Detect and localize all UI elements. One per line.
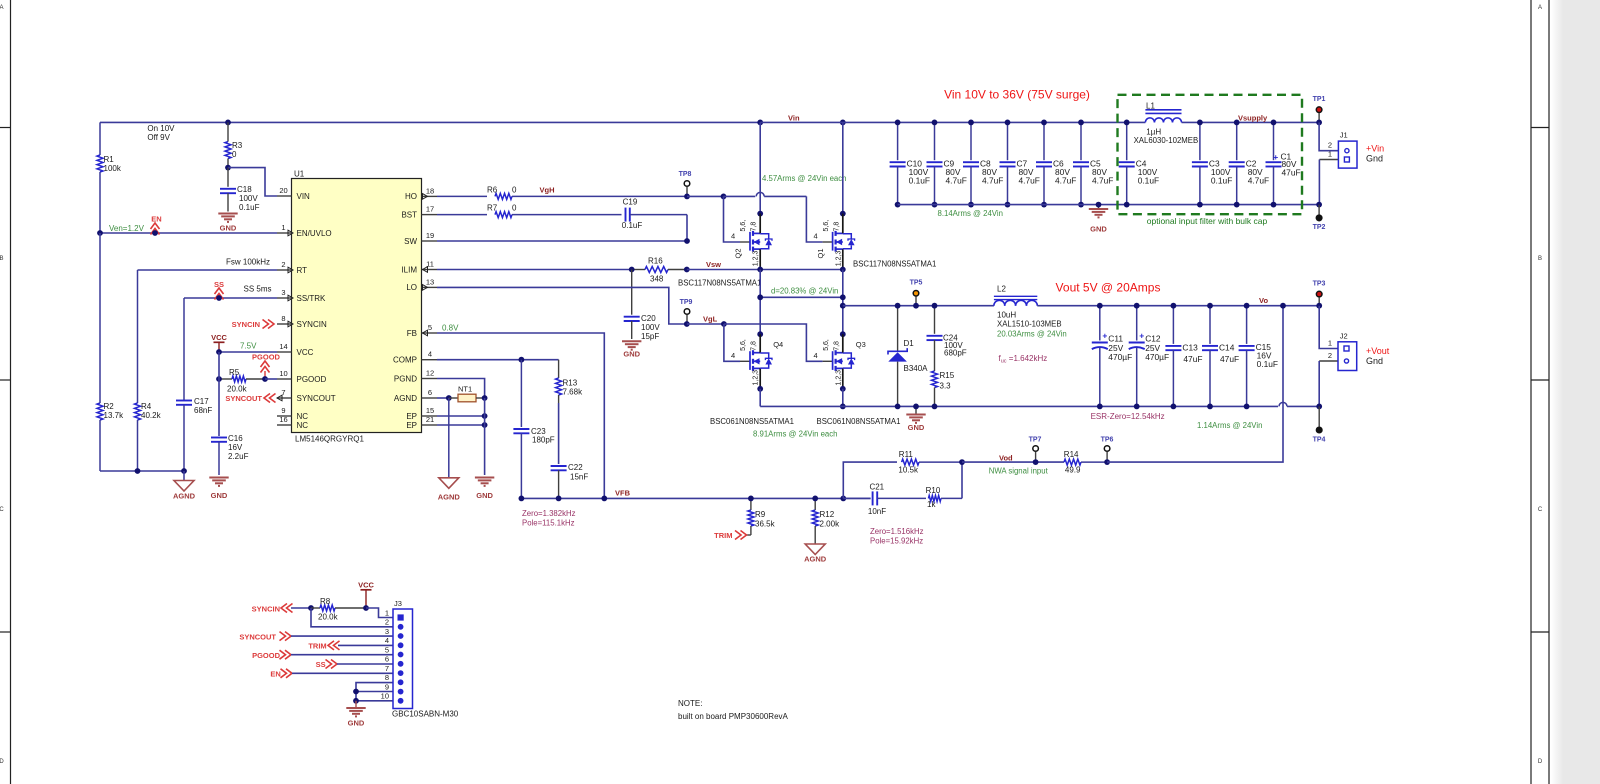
svg-text:10: 10 (381, 692, 389, 701)
svg-text:R10: R10 (926, 486, 941, 495)
junction R9 top (748, 496, 754, 502)
svg-text:1,2,3: 1,2,3 (753, 251, 760, 267)
wire R3 to VIN pin (228, 168, 277, 196)
junction C14 top (1207, 303, 1213, 309)
junction R12 top (812, 496, 818, 502)
junction TP8 (684, 194, 690, 200)
svg-text:1: 1 (281, 223, 285, 232)
svg-text:0: 0 (232, 150, 237, 159)
svg-text:Zero=1.382kHz: Zero=1.382kHz (522, 509, 576, 518)
svg-text:SYNCOUT: SYNCOUT (239, 632, 276, 641)
junction C11 bottom (1097, 404, 1103, 410)
wire Q1 drain feed (842, 122, 844, 213)
svg-text:C20: C20 (641, 314, 656, 323)
wire VCC to pin14 (219, 351, 277, 353)
junction SW to L2 takeoff (840, 303, 846, 309)
junction SS port (216, 295, 222, 301)
connector J3 GBC10SABN-M30 (381, 599, 459, 719)
port PGOOD (252, 353, 281, 380)
junction D1 bottom (895, 404, 901, 410)
svg-text:EP: EP (406, 412, 417, 421)
text 7.5V (240, 342, 257, 351)
capacitor C16 (211, 434, 249, 475)
svg-text:18: 18 (426, 186, 434, 195)
text 8.14Arms @ 24Vin (938, 209, 1003, 218)
capacitor C20 (624, 270, 661, 342)
resistor R2 (97, 233, 124, 471)
wire Vsw to Q2 source (687, 269, 760, 271)
svg-text:2.2uF: 2.2uF (228, 452, 249, 461)
svg-text:1k: 1k (927, 500, 936, 509)
junction C23 bottom (519, 496, 525, 502)
junction C10 bottom (895, 202, 901, 208)
wire AGND pin net (437, 397, 449, 399)
junction VCC pin14 (216, 349, 222, 355)
svg-text:GBC10SABN-M30: GBC10SABN-M30 (392, 710, 459, 719)
svg-text:0: 0 (512, 186, 517, 195)
svg-text:8: 8 (281, 314, 285, 323)
svg-text:2: 2 (281, 260, 285, 269)
svg-text:180pF: 180pF (532, 436, 555, 445)
svg-text:0.8V: 0.8V (442, 324, 459, 333)
capacitor C3 (1192, 122, 1232, 204)
junction R4 bottom (135, 468, 141, 474)
text BSC117N08NS5ATMA1 for Q2 (678, 279, 761, 288)
wire SS/TRK net (184, 297, 277, 299)
svg-text:R11: R11 (899, 450, 914, 459)
wire Q3 source to gnd rail (842, 389, 844, 407)
svg-text:2: 2 (1328, 141, 1332, 150)
svg-text:AGND: AGND (173, 492, 196, 501)
junction R3/C18/VIN (225, 165, 231, 171)
svg-text:10uH: 10uH (997, 311, 1016, 320)
junction TP2 (1316, 202, 1322, 208)
junction R3 top (225, 120, 231, 126)
wire Vout rail (1037, 305, 1319, 307)
svg-text:ILIM: ILIM (401, 265, 417, 274)
svg-text:R7: R7 (487, 204, 498, 213)
svg-text:680pF: 680pF (944, 349, 967, 358)
svg-text:+: + (1102, 331, 1107, 341)
wire J3 pin8 (356, 683, 393, 701)
svg-text:A: A (0, 5, 4, 11)
svg-text:Q1: Q1 (816, 248, 825, 258)
svg-text:AGND: AGND (394, 394, 417, 403)
text 8.91Arms @ 24Vin each (753, 430, 838, 439)
resistor R5 (219, 368, 265, 394)
junction TP5 (913, 303, 919, 309)
svg-text:13: 13 (426, 277, 434, 286)
svg-text:1: 1 (385, 608, 389, 617)
svg-text:Vin 10V to 36V (75V surge): Vin 10V to 36V (75V surge) (944, 88, 1090, 102)
svg-text:4.7uF: 4.7uF (1092, 176, 1113, 186)
svg-text:0.1uF: 0.1uF (1257, 359, 1278, 369)
port SYNCOUT at U1 (225, 394, 275, 403)
svg-text:20.0k: 20.0k (227, 385, 248, 394)
junction input gnd stub (1096, 202, 1102, 208)
svg-text:19: 19 (426, 231, 434, 240)
port EN at J3 (270, 669, 292, 679)
wire VgH down to Q1 gate (806, 196, 822, 242)
svg-text:J1: J1 (1340, 131, 1348, 140)
capacitor C5 (1073, 122, 1113, 204)
svg-text:4: 4 (731, 351, 735, 360)
svg-text:TP5: TP5 (910, 280, 923, 287)
diode D1 B340A (888, 306, 928, 407)
junction C17/AGND (181, 468, 187, 474)
svg-text:SS 5ms: SS 5ms (244, 285, 272, 294)
junction R8 left (308, 605, 314, 611)
svg-text:10nF: 10nF (868, 507, 886, 516)
capacitor C1 (1266, 122, 1301, 204)
junction Vsw node (684, 267, 690, 273)
junction C13 bottom (1171, 404, 1177, 410)
junction R8 right VCC (363, 605, 369, 611)
svg-text:SYNCIN: SYNCIN (297, 320, 327, 329)
svg-text:1,2,3: 1,2,3 (753, 370, 760, 386)
svg-text:0.1uF: 0.1uF (239, 203, 260, 212)
svg-text:SYNCOUT: SYNCOUT (297, 394, 336, 403)
svg-text:B340A: B340A (904, 364, 929, 373)
svg-text:built on board PMP30600RevA: built on board PMP30600RevA (678, 712, 789, 721)
svg-text:Q2: Q2 (734, 248, 743, 258)
svg-text:NWA signal input: NWA signal input (989, 467, 1049, 476)
svg-text:5: 5 (428, 323, 432, 332)
capacitor C11 (1092, 306, 1132, 407)
svg-text:Pole=115.1kHz: Pole=115.1kHz (522, 519, 575, 528)
U1 pin stubs and numbers (277, 186, 437, 425)
svg-text:TP3: TP3 (1313, 281, 1326, 288)
svg-text:4.7uF: 4.7uF (1248, 176, 1269, 186)
svg-text:NC: NC (297, 412, 309, 421)
svg-text:Vout 5V @ 20Amps: Vout 5V @ 20Amps (1056, 281, 1161, 295)
test point TP3 (1313, 281, 1326, 306)
svg-text:+: + (1273, 152, 1278, 162)
svg-text:0.1uF: 0.1uF (909, 176, 930, 186)
svg-text:47uF: 47uF (1282, 167, 1301, 177)
svg-text:AGND: AGND (804, 555, 827, 564)
svg-text:Vsupply: Vsupply (1238, 114, 1268, 123)
svg-text:7,8: 7,8 (751, 341, 758, 351)
svg-text:VgL: VgL (703, 315, 718, 324)
wire J3 pin4 (338, 644, 393, 646)
svg-text:0: 0 (512, 204, 517, 213)
wire to J3 pin2 (311, 608, 393, 627)
junction C2 bottom (1234, 202, 1240, 208)
text Ven=1.2V (109, 224, 145, 233)
svg-text:5,6,: 5,6, (823, 220, 830, 232)
text optional input filter with bulk cap (1147, 216, 1268, 226)
svg-text:GND: GND (908, 423, 925, 432)
svg-text:470µF: 470µF (1145, 352, 1169, 362)
svg-text:Pole=15.92kHz: Pole=15.92kHz (870, 537, 923, 546)
svg-text:Vsw: Vsw (706, 260, 721, 269)
svg-text:9: 9 (385, 682, 389, 691)
svg-text:100V: 100V (239, 194, 258, 203)
svg-text:Q4: Q4 (773, 340, 783, 349)
svg-text:R6: R6 (487, 186, 498, 195)
svg-text:optional input filter with bul: optional input filter with bulk cap (1147, 216, 1268, 226)
capacitor C23 (513, 360, 554, 499)
junction gnd stub (913, 404, 919, 410)
svg-text:GND: GND (211, 491, 228, 500)
svg-text:R5: R5 (229, 368, 240, 377)
svg-text:TP2: TP2 (1313, 224, 1326, 231)
junction ILIM/C20 (629, 267, 635, 273)
svg-text:5,6,: 5,6, (823, 339, 830, 351)
svg-text:2: 2 (1328, 351, 1332, 360)
transistor Q1 BSC117N08NS5ATMA1 (814, 214, 855, 270)
text 20.03Arms @ 24Vin (997, 329, 1067, 338)
text 1.14Arms @ 24Vin (1197, 421, 1262, 430)
svg-text:XAL1510-103MEB: XAL1510-103MEB (997, 320, 1062, 329)
wire d-link (760, 296, 843, 298)
svg-text:VCC: VCC (297, 348, 314, 357)
svg-text:7,8: 7,8 (833, 222, 840, 232)
inductor L1 XAL6030-102MEB (1134, 102, 1199, 146)
capacitor C10 (890, 122, 930, 204)
wire EN/UVLO net (100, 232, 277, 234)
svg-text:SS: SS (316, 660, 326, 669)
wire Q4 source to gnd rail (759, 389, 761, 407)
text fuc crossover (999, 354, 1048, 365)
net label Vod (999, 453, 1013, 462)
junction R15 bottom (932, 404, 938, 410)
junction NT1 left (446, 395, 452, 401)
wire Q2 drain feed (759, 122, 761, 213)
svg-text:Ven=1.2V: Ven=1.2V (109, 224, 145, 233)
port PGOOD at J3 (252, 650, 291, 660)
svg-text:8.14Arms @ 24Vin: 8.14Arms @ 24Vin (938, 209, 1003, 218)
text Zero=1.382kHz Pole=115.1kHz (522, 509, 576, 528)
wire EP pin15 net (437, 415, 485, 417)
svg-text:HO: HO (405, 192, 417, 201)
svg-text:3: 3 (281, 288, 285, 297)
svg-text:GND: GND (476, 491, 493, 500)
junction C6 bottom (1041, 202, 1047, 208)
test point TP6 (1101, 437, 1114, 463)
junction C7 top (1005, 120, 1011, 126)
junction EP15 (482, 413, 488, 419)
svg-text:VgH: VgH (540, 186, 555, 195)
resistor R9 (747, 498, 776, 535)
svg-text:Gnd: Gnd (1366, 154, 1383, 164)
junction C7 bottom (1005, 202, 1011, 208)
svg-text:C22: C22 (568, 463, 583, 472)
wire VgL to Q4 gate (724, 324, 740, 361)
svg-text:+Vout: +Vout (1366, 346, 1390, 356)
svg-text:2: 2 (385, 618, 389, 627)
svg-text:R2: R2 (104, 402, 115, 411)
junction C4 top (1124, 120, 1130, 126)
IC U1 LM5146QRGYRQ1 body (292, 170, 422, 444)
junction C11 top (1097, 303, 1103, 309)
net label Vsw (706, 260, 721, 269)
connector J2 (1319, 306, 1357, 407)
svg-text:VFB: VFB (615, 489, 631, 498)
test point TP4 (1313, 406, 1326, 443)
svg-text:20: 20 (279, 186, 287, 195)
svg-text:4: 4 (385, 636, 389, 645)
test point TP9 (680, 299, 693, 324)
svg-text:PGOOD: PGOOD (252, 353, 281, 362)
ground GND under C20 (622, 341, 641, 358)
svg-text:Q3: Q3 (856, 340, 866, 349)
optional input filter dashed box (1118, 95, 1303, 214)
svg-text:ESR-Zero=12.54kHz: ESR-Zero=12.54kHz (1091, 412, 1165, 421)
text BSC061N08NS5ATMA1 for Q4 (710, 417, 794, 426)
svg-text:20.03Arms @ 24Vin: 20.03Arms @ 24Vin (997, 329, 1067, 338)
svg-text:C14: C14 (1219, 343, 1235, 353)
svg-text:6: 6 (428, 388, 432, 397)
svg-text:348: 348 (650, 275, 664, 284)
svg-text:SYNCOUT: SYNCOUT (225, 394, 262, 403)
resistor R13 (556, 360, 583, 464)
svg-text:20.0k: 20.0k (318, 613, 339, 622)
svg-text:J2: J2 (1340, 332, 1348, 341)
junction Q3 drain (840, 331, 846, 337)
wire input gnd rail (898, 204, 1320, 206)
capacitor C14 (1202, 306, 1239, 407)
resistor R6 (437, 186, 687, 200)
junction C1 bottom (1271, 202, 1277, 208)
svg-text:16: 16 (279, 415, 287, 424)
svg-text:COMP: COMP (393, 356, 417, 365)
junction VgL split (721, 321, 727, 327)
text SS 5ms (244, 285, 272, 294)
svg-text:fuc =1.642kHz: fuc =1.642kHz (999, 354, 1048, 365)
ground GND under C18 (218, 214, 237, 233)
capacitor C22 (551, 463, 589, 498)
wire SYNCIN to R8 (291, 607, 311, 609)
junction d-link right (840, 294, 846, 300)
transistor Q3 BSC061N08NS5ATMA1 (814, 334, 866, 389)
svg-text:XAL6030-102MEB: XAL6030-102MEB (1134, 136, 1199, 145)
svg-text:10: 10 (279, 369, 287, 378)
svg-text:36.5k: 36.5k (755, 520, 776, 529)
ground GND under C16 (209, 478, 228, 501)
svg-text:C16: C16 (228, 434, 243, 443)
wire J3 pin3 (291, 635, 393, 637)
text NOTE (678, 699, 789, 721)
junction TP6 (1104, 459, 1110, 465)
svg-text:17: 17 (426, 205, 434, 214)
ground GND under U1 (475, 478, 494, 501)
svg-text:1: 1 (1328, 339, 1332, 348)
text NWA signal input (989, 467, 1049, 476)
resistor R8 (311, 597, 366, 622)
wire VgL to Q3 gate (724, 324, 823, 361)
svg-text:RT: RT (297, 266, 308, 275)
junction D1 top (895, 303, 901, 309)
text 4.57Arms @ 24Vin each (762, 174, 847, 183)
ground GND input rail (1089, 205, 1108, 234)
svg-text:C21: C21 (869, 482, 884, 491)
title Vin 10V to 36V (75V surge) (944, 88, 1090, 102)
capacitor C9 (927, 122, 967, 204)
junction C15 bottom (1244, 404, 1250, 410)
svg-text:10.5k: 10.5k (898, 466, 919, 475)
junction VgH split (721, 194, 727, 200)
junction Q2 source (757, 267, 763, 273)
svg-text:Vo: Vo (1259, 296, 1268, 305)
inductor L2 XAL1510-103MEB (994, 284, 1062, 328)
svg-text:B: B (0, 256, 4, 262)
junction FB/VFB (601, 496, 607, 502)
svg-text:7.68k: 7.68k (563, 388, 584, 397)
wire Q2 source down (759, 270, 761, 335)
svg-text:NT1: NT1 (458, 385, 472, 394)
wire J3 pin7 (292, 672, 393, 674)
test point TP7 (1029, 437, 1042, 463)
capacitor C4 (1119, 122, 1159, 204)
capacitor C17 (176, 298, 212, 471)
wire VgH to gates (687, 195, 724, 197)
test point TP1 (1313, 96, 1326, 122)
transistor Q2 BSC117N08NS5ATMA1 (731, 214, 772, 270)
junction d-link left (757, 294, 763, 300)
svg-text:15nF: 15nF (570, 473, 588, 482)
svg-text:D: D (1538, 759, 1543, 765)
svg-text:7,8: 7,8 (833, 341, 840, 351)
connector J1 (1319, 122, 1357, 204)
svg-text:4: 4 (731, 232, 735, 241)
ground GND at power stage (906, 406, 925, 432)
svg-text:TP1: TP1 (1313, 96, 1326, 103)
junction Vin rail Q2 (757, 120, 763, 126)
svg-text:8.91Arms @ 24Vin each: 8.91Arms @ 24Vin each (753, 430, 838, 439)
wire VgH down to Q2 gate (724, 196, 741, 242)
wire J3 pin10 (356, 700, 393, 702)
svg-text:+: + (1139, 331, 1144, 341)
svg-text:Vin: Vin (788, 114, 800, 123)
capacitor C21 (843, 482, 926, 516)
wire J3 pin6 (337, 663, 393, 665)
svg-text:4.7uF: 4.7uF (946, 176, 967, 186)
svg-text:AGND: AGND (438, 493, 461, 502)
svg-text:7.5V: 7.5V (240, 342, 257, 351)
svg-text:14: 14 (279, 342, 287, 351)
svg-text:C: C (1538, 507, 1543, 513)
capacitor C12 (1129, 306, 1169, 407)
wire VgH over Q2 column with hop (724, 192, 807, 196)
port EN (151, 215, 162, 235)
svg-text:15pF: 15pF (641, 332, 659, 341)
svg-text:TP4: TP4 (1313, 437, 1326, 444)
port SS (214, 280, 224, 300)
wire AGND bottom rail (100, 470, 184, 472)
svg-text:0.1uF: 0.1uF (622, 221, 643, 230)
svg-text:C11: C11 (1108, 334, 1123, 344)
svg-text:TP6: TP6 (1101, 437, 1114, 444)
svg-text:Off 9V: Off 9V (147, 133, 170, 142)
svg-text:R16: R16 (648, 257, 663, 266)
svg-text:C18: C18 (237, 185, 252, 194)
net label VFB (615, 489, 631, 498)
wire SW node to L2 (843, 305, 994, 307)
text Fsw 100kHz (226, 258, 270, 267)
svg-text:13.7k: 13.7k (104, 411, 125, 420)
svg-text:1,2,3: 1,2,3 (835, 251, 842, 267)
wire J3 pin5 (291, 654, 393, 656)
svg-text:+Vin: +Vin (1366, 144, 1384, 154)
svg-text:C12: C12 (1145, 334, 1161, 344)
svg-text:R1: R1 (104, 155, 115, 164)
svg-text:5,6,: 5,6, (740, 220, 747, 232)
junction gnd rail Q3 (840, 404, 846, 410)
resistor R10 (926, 462, 962, 509)
svg-text:1.14Arms @ 24Vin: 1.14Arms @ 24Vin (1197, 421, 1262, 430)
